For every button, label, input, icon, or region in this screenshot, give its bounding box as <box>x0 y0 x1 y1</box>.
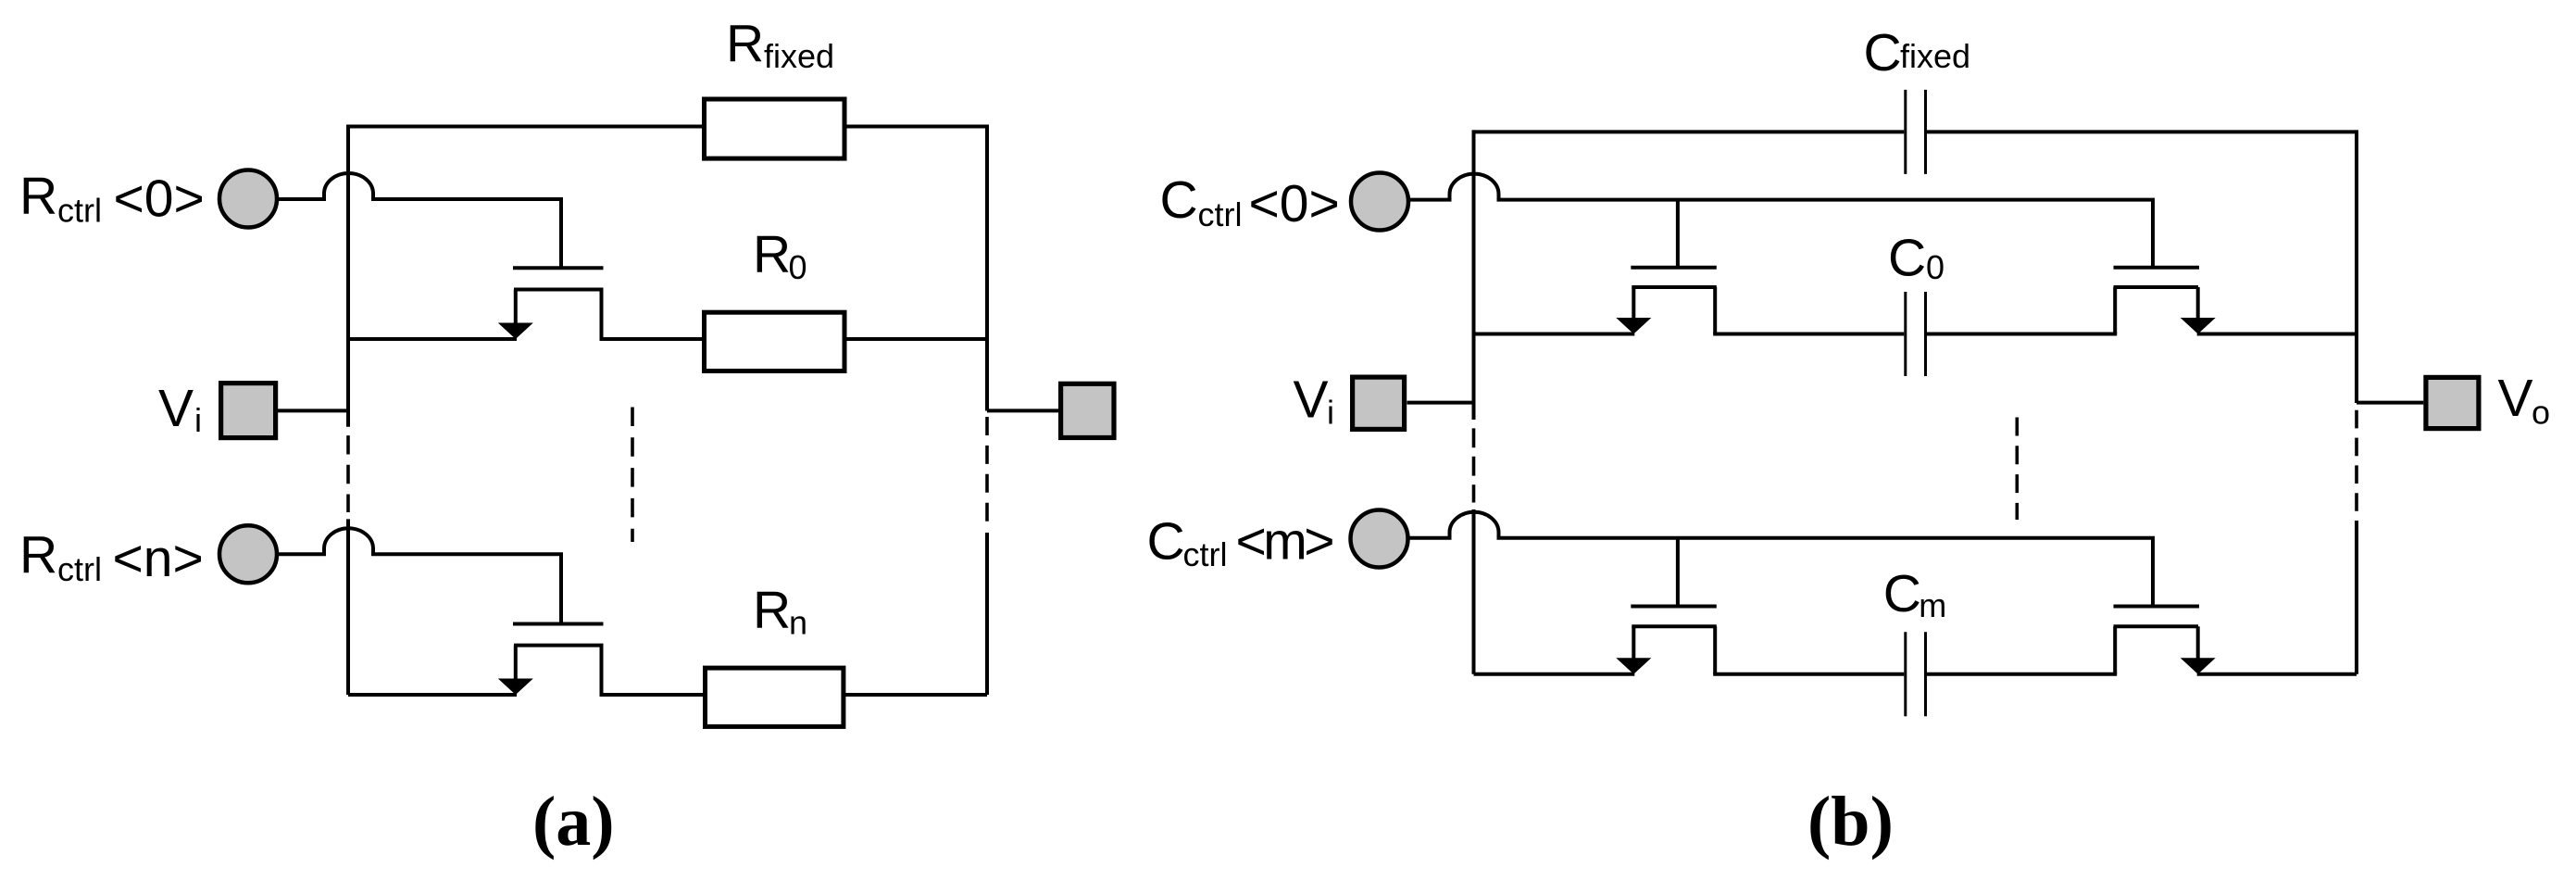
svg-text:<0>: <0> <box>1249 174 1340 233</box>
terminal square Vo (b) <box>2426 377 2479 428</box>
wire: (b) row0 seg bus to left arrow <box>1474 333 1635 336</box>
wire: Rctrl<n> lead <box>277 552 326 556</box>
svg-text:ctrl: ctrl <box>57 192 102 230</box>
wire: Cctrl<m> gate rail <box>1497 536 2156 540</box>
svg-text:C: C <box>1147 512 1185 572</box>
transistor M0L (b row0 left nmos) <box>1631 200 1717 334</box>
wire: (b) left bus upper segment <box>1472 130 1476 420</box>
wire: (a) top rail <box>348 125 987 129</box>
capacitor Cm <box>1906 632 1926 716</box>
wire: (b) row0 seg C0 to right drain <box>1927 333 2117 336</box>
wire: (b) rowM seg Cm to right drain <box>1927 673 2117 676</box>
svg-text:V: V <box>2498 369 2533 428</box>
label Cfixed <box>1864 23 1971 82</box>
wire: Vi (b) lead <box>1407 401 1474 405</box>
terminal circle Rctrl<0> <box>219 170 277 228</box>
wire hop: Rctrl<0> over left bus <box>324 173 373 199</box>
svg-text:m: m <box>1919 586 1946 624</box>
svg-text:(b): (b) <box>1807 783 1894 861</box>
wire: (b) rowM seg bus to left arrow <box>1474 673 1635 676</box>
wire: (b) rowM seg right arrow to bus <box>2197 673 2357 676</box>
wire: (a) right bus upper segment <box>985 125 989 411</box>
wire: (b) top rail right of Cfixed <box>1927 130 2357 133</box>
label Rfixed <box>726 14 834 75</box>
resistor R0 <box>705 312 845 371</box>
svg-text:C: C <box>1888 229 1926 288</box>
svg-text:n: n <box>789 604 807 642</box>
wire: Rctrl<0> lead <box>277 197 326 201</box>
wire: (a) rowN right segment <box>600 693 988 697</box>
svg-text:R: R <box>726 14 764 73</box>
svg-text:o: o <box>2532 394 2550 432</box>
dashed ellipsis line (a) middle <box>631 408 634 543</box>
wire: Cctrl<m> lead <box>1408 536 1452 540</box>
wire: (a) row0 left segment <box>348 337 517 341</box>
label Vi (a) <box>158 379 202 439</box>
label Cctrl<0> <box>1160 170 1340 233</box>
svg-text:ctrl: ctrl <box>1183 535 1228 573</box>
wire: (a) row0 right segment <box>600 337 988 341</box>
wire: Cctrl<0> gate rail <box>1497 198 2156 202</box>
wire: Rctrl<0> to gate <box>371 197 563 201</box>
transistor Mn (a rowN nmos) <box>513 554 604 695</box>
svg-text:ctrl: ctrl <box>57 550 102 588</box>
terminal square Vi (a) <box>221 383 276 438</box>
svg-text:<m>: <m> <box>1236 512 1333 572</box>
capacitor C0 <box>1906 292 1926 376</box>
wire hop: Rctrl<n> over left bus <box>324 528 373 554</box>
wire: output (a) lead <box>987 409 1058 412</box>
svg-text:R: R <box>19 525 57 585</box>
resistor Rfixed <box>705 99 845 158</box>
svg-text:R: R <box>19 167 57 226</box>
wire: (a) left bus dashed segment <box>346 435 350 512</box>
svg-text:C: C <box>1864 23 1902 82</box>
wire: (b) rowM seg drain to Cm <box>1713 673 1904 676</box>
svg-text:fixed: fixed <box>1900 37 1970 75</box>
svg-text:ctrl: ctrl <box>1198 195 1243 233</box>
label Cctrl<m> <box>1147 512 1333 574</box>
terminal circle Rctrl<n> <box>219 525 277 583</box>
label R0 <box>753 224 807 286</box>
wire: (a) right bus dashed segment <box>985 417 989 523</box>
wire: Rctrl<n> to gate <box>371 552 563 556</box>
svg-text:C: C <box>1160 170 1198 230</box>
wire hop: Cctrl<0> over left bus <box>1450 174 1499 200</box>
wire: (a) rowN left segment <box>348 693 517 697</box>
svg-text:C: C <box>1883 564 1921 623</box>
label C0 <box>1888 229 1945 288</box>
wire: (b) row0 seg right arrow to bus <box>2197 333 2357 336</box>
label Cm <box>1883 564 1946 624</box>
dashed ellipsis line (b) middle <box>2016 418 2020 521</box>
transistor M0R (b row0 right nmos) <box>2114 200 2200 334</box>
terminal circle Cctrl<m> <box>1351 510 1408 568</box>
label Vi (b) <box>1294 371 1335 432</box>
wire: (b) left bus dashed segment <box>1472 428 1476 502</box>
transistor MmR (b rowM right nmos) <box>2114 538 2200 674</box>
terminal square Vi (b) <box>1353 377 1405 429</box>
svg-text:0: 0 <box>789 248 807 286</box>
svg-text:V: V <box>1294 371 1329 430</box>
resistor Rn <box>706 668 844 726</box>
wire: (a) right bus lower segment <box>985 533 989 695</box>
transistor MmL (b rowM left nmos) <box>1631 538 1717 674</box>
wire: Vi (a) lead <box>278 409 348 412</box>
svg-text:V: V <box>158 379 194 438</box>
label Rctrl<0> <box>19 167 205 230</box>
wire: (b) right bus upper segment <box>2355 130 2358 403</box>
svg-text:i: i <box>194 401 202 439</box>
svg-text:0: 0 <box>1926 248 1945 286</box>
svg-text:fixed: fixed <box>764 37 834 75</box>
label Rctrl<n> <box>19 525 204 588</box>
wire: (b) right bus dashed segment <box>2355 410 2358 512</box>
wire: Vo (b) lead <box>2357 401 2423 405</box>
transistor M0 (a row0 nmos) <box>513 199 604 339</box>
terminal circle Cctrl<0> <box>1351 173 1408 231</box>
capacitor Cfixed <box>1906 90 1926 174</box>
svg-text:R: R <box>753 224 791 283</box>
svg-text:(a): (a) <box>532 783 615 861</box>
wire: (b) row0 seg drain to C0 <box>1713 333 1904 336</box>
label Rn <box>753 581 807 642</box>
svg-text:R: R <box>753 581 791 640</box>
label Vo (b) <box>2498 369 2551 432</box>
svg-text:<n>: <n> <box>113 529 204 588</box>
wire: (a) left bus lower segment <box>346 519 350 695</box>
svg-text:i: i <box>1327 394 1334 432</box>
svg-text:<0>: <0> <box>114 170 205 229</box>
wire: (a) left bus upper segment <box>346 125 350 427</box>
wire: (b) left bus lower segment <box>1472 509 1476 674</box>
wire: Cctrl<0> lead <box>1408 198 1452 202</box>
wire hop: Cctrl<m> over left bus <box>1450 512 1499 538</box>
terminal square output (a) <box>1061 383 1114 437</box>
wire: (b) right bus lower segment <box>2355 521 2358 674</box>
wire: (b) top rail left of Cfixed <box>1474 130 1905 133</box>
